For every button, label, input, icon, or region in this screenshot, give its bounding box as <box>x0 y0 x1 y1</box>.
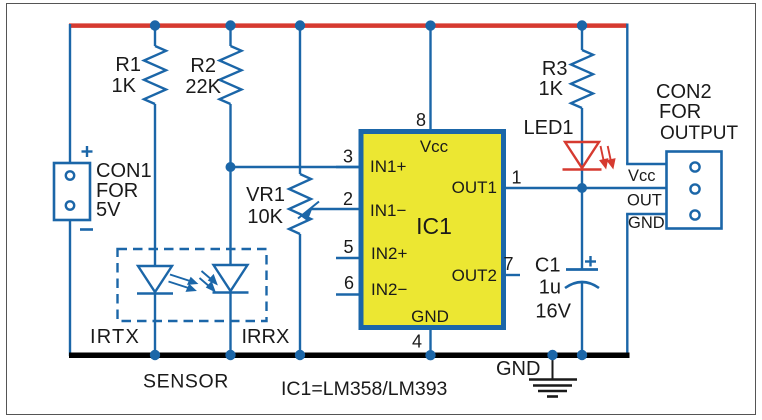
resistor R2 <box>220 46 242 104</box>
svg-text:16V: 16V <box>535 301 571 323</box>
svg-text:IC1=LM358/LM393: IC1=LM358/LM393 <box>281 378 447 400</box>
wire IC1 pin 8 Vcc lead <box>429 24 431 131</box>
wire VR1 bottom lead to ground rail <box>299 234 301 356</box>
svg-text:22K: 22K <box>185 76 221 98</box>
wire IRRX cathode to ground rail <box>229 293 231 357</box>
svg-text:IC1: IC1 <box>416 213 452 239</box>
svg-text:IN1−: IN1− <box>370 201 406 220</box>
sensor dashed enclosure <box>118 249 267 321</box>
svg-text:R1: R1 <box>115 54 141 76</box>
svg-text:2: 2 <box>343 189 353 209</box>
svg-text:3: 3 <box>343 147 353 167</box>
connector CON2 <box>667 152 722 229</box>
svg-text:R3: R3 <box>542 58 568 80</box>
svg-text:8: 8 <box>416 110 426 130</box>
C1 polarity plus <box>585 256 596 267</box>
wire R1 bottom to IRTX anode <box>154 104 156 266</box>
wire CON2 GND horizontal <box>626 213 667 215</box>
wire CON1 minus lead to ground rail <box>69 220 71 356</box>
IRTX emission arrows <box>169 275 197 291</box>
ground symbol <box>529 357 577 397</box>
wire R2 bottom to node A <box>229 104 231 167</box>
VR1 wiper arrow <box>298 202 319 220</box>
svg-text:Vcc: Vcc <box>420 137 449 156</box>
svg-text:OUT1: OUT1 <box>452 178 497 197</box>
svg-text:OUT2: OUT2 <box>452 266 497 285</box>
svg-text:5: 5 <box>343 237 353 257</box>
svg-text:GND: GND <box>411 307 449 326</box>
svg-text:GND: GND <box>496 358 540 380</box>
svg-text:SENSOR: SENSOR <box>143 371 229 393</box>
wire IRTX cathode to ground rail <box>154 294 156 357</box>
wire R3 bottom through LED1 to OUT node <box>581 108 583 188</box>
wire Vcc rail down to CON2 Vcc <box>626 24 628 165</box>
LED LED1 <box>563 142 602 170</box>
svg-text:IN1+: IN1+ <box>370 157 406 176</box>
wire R1 top lead <box>154 24 156 46</box>
Vcc power rail (red) <box>69 23 627 28</box>
pin 3 underline stub <box>336 166 361 168</box>
CON1 plus symbol <box>82 146 93 157</box>
svg-text:1K: 1K <box>539 78 564 100</box>
wire IC1 pin 4 GND lead <box>429 328 431 356</box>
svg-text:IN2+: IN2+ <box>371 244 407 263</box>
wire node A down to IRRX anode <box>229 167 231 265</box>
CON1 minus symbol <box>80 228 93 231</box>
ground rail (black) <box>69 352 630 358</box>
svg-text:5V: 5V <box>96 199 121 221</box>
svg-text:OUTPUT: OUTPUT <box>660 123 739 144</box>
svg-text:IRTX: IRTX <box>90 326 140 348</box>
svg-text:R2: R2 <box>190 55 216 77</box>
wire C1 to ground rail <box>581 282 583 356</box>
svg-text:VR1: VR1 <box>246 184 285 206</box>
svg-text:CON2: CON2 <box>656 81 712 103</box>
wire CON2 Vcc horizontal <box>626 163 667 165</box>
svg-text:GND: GND <box>628 214 665 232</box>
IRRX reception arrows <box>200 271 217 291</box>
svg-text:IN2−: IN2− <box>371 280 407 299</box>
op-amp IC1 body <box>361 132 504 328</box>
connector CON1 <box>54 163 90 220</box>
svg-text:Vcc: Vcc <box>628 167 656 185</box>
IR receiver diode IRRX <box>213 265 249 293</box>
pin 5 stub <box>336 257 361 259</box>
capacitor C1 <box>565 270 599 289</box>
junction dots on Vcc rail <box>150 20 587 31</box>
wire CON2 GND down to ground rail <box>626 214 628 358</box>
junction OUT node <box>577 183 587 193</box>
junction dots on ground rail <box>150 350 587 361</box>
wire OUT node to C1 <box>581 188 583 269</box>
svg-text:1u: 1u <box>539 277 561 299</box>
svg-text:1K: 1K <box>112 75 137 97</box>
svg-text:LED1: LED1 <box>524 117 574 139</box>
svg-text:OUT: OUT <box>627 192 662 210</box>
pin 6 stub <box>336 293 361 295</box>
potentiometer VR1 <box>289 174 311 234</box>
resistor R1 <box>144 46 166 104</box>
wire VR1 wiper to IC1 pin 2 <box>311 208 361 210</box>
svg-text:7: 7 <box>503 254 513 274</box>
svg-text:10K: 10K <box>247 206 283 228</box>
svg-text:4: 4 <box>412 332 422 352</box>
svg-text:6: 6 <box>344 273 354 293</box>
wire R3 top lead <box>581 24 583 50</box>
svg-text:FOR: FOR <box>659 101 701 123</box>
svg-text:C1: C1 <box>535 255 561 277</box>
svg-text:1: 1 <box>511 168 521 188</box>
resistor R3 <box>571 50 593 108</box>
wire OUT1 to CON2 OUT <box>504 187 667 189</box>
pin 7 stub <box>504 274 520 276</box>
wire node A to IC1 pin 3 <box>231 166 362 168</box>
junction node A <box>226 162 236 172</box>
wire R2 top lead <box>229 24 231 46</box>
LED1 emission arrows <box>601 146 615 167</box>
svg-text:IRRX: IRRX <box>242 326 290 348</box>
IR transmitter diode IRTX <box>137 266 173 294</box>
wire VR1 top lead from Vcc rail <box>299 24 301 174</box>
wire CON1 plus lead <box>69 24 71 163</box>
svg-text:CON1: CON1 <box>96 160 152 182</box>
